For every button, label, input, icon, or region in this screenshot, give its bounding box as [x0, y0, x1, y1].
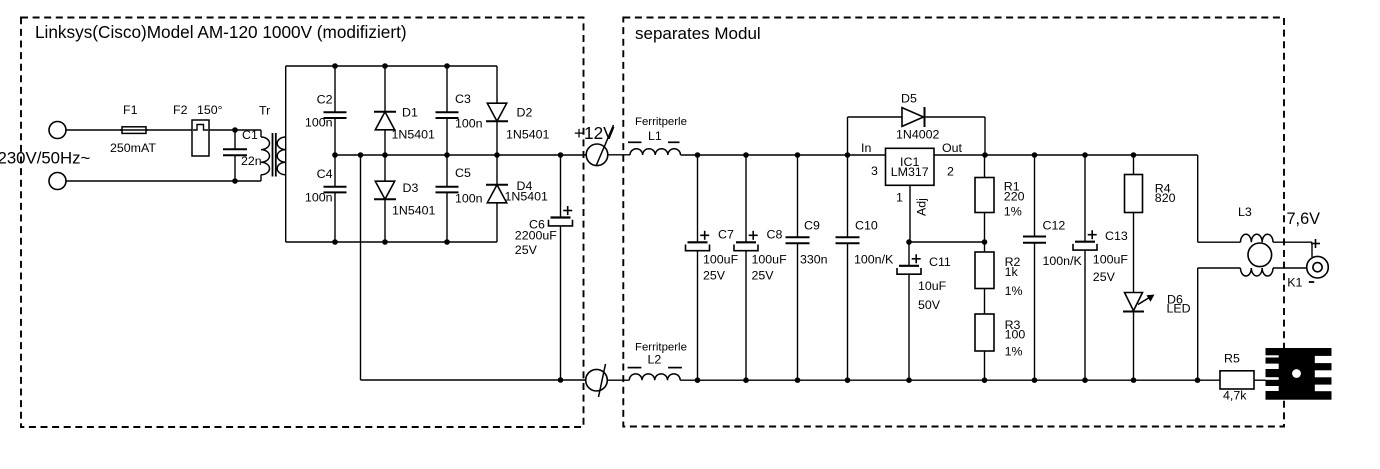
svg-text:1: 1	[896, 191, 903, 205]
svg-text:L1: L1	[648, 129, 662, 143]
svg-text:100: 100	[1005, 328, 1026, 342]
svg-text:C12: C12	[1043, 219, 1066, 233]
svg-text:1%: 1%	[1005, 345, 1023, 359]
svg-text:1N5401: 1N5401	[392, 128, 436, 142]
svg-text:330n: 330n	[800, 253, 828, 267]
svg-text:C5: C5	[455, 166, 471, 180]
svg-text:Linksys(Cisco)Model AM-120 100: Linksys(Cisco)Model AM-120 1000V (modifi…	[35, 22, 407, 42]
svg-text:100n: 100n	[305, 191, 333, 205]
svg-text:separates Modul: separates Modul	[635, 24, 761, 43]
svg-text:100uF: 100uF	[752, 253, 788, 267]
svg-text:Tr: Tr	[259, 104, 270, 118]
svg-text:4,7k: 4,7k	[1223, 389, 1247, 403]
svg-text:220: 220	[1004, 190, 1025, 204]
svg-text:10uF: 10uF	[918, 279, 947, 293]
svg-text:100n: 100n	[455, 117, 483, 131]
svg-text:7,6V: 7,6V	[1287, 210, 1321, 228]
svg-text:230V/50Hz~: 230V/50Hz~	[0, 149, 91, 168]
svg-text:250mAT: 250mAT	[110, 141, 156, 155]
svg-text:25V: 25V	[1093, 270, 1116, 284]
svg-text:1k: 1k	[1005, 265, 1019, 279]
svg-text:100uF: 100uF	[1093, 253, 1129, 267]
svg-text:C13: C13	[1105, 229, 1128, 243]
svg-text:Adj: Adj	[915, 198, 929, 216]
svg-text:820: 820	[1155, 191, 1176, 205]
svg-text:C10: C10	[855, 219, 878, 233]
svg-text:R5: R5	[1224, 352, 1240, 366]
svg-text:F1: F1	[123, 103, 138, 117]
svg-text:C11: C11	[929, 255, 951, 269]
svg-text:L2: L2	[648, 352, 662, 366]
svg-text:25V: 25V	[703, 269, 726, 283]
svg-text:100n: 100n	[305, 116, 333, 130]
svg-text:C9: C9	[804, 219, 820, 233]
svg-text:100n/K: 100n/K	[1043, 254, 1083, 268]
svg-text:Out: Out	[942, 141, 963, 155]
svg-text:Ferritperle: Ferritperle	[635, 116, 687, 128]
svg-text:LED: LED	[1167, 302, 1191, 316]
svg-text:C3: C3	[455, 92, 471, 106]
svg-text:1N5401: 1N5401	[506, 128, 550, 142]
svg-text:F2: F2	[173, 103, 188, 117]
svg-text:C8: C8	[767, 228, 783, 242]
svg-text:1%: 1%	[1004, 204, 1022, 218]
svg-text:LM317: LM317	[891, 165, 929, 179]
svg-text:1N5401: 1N5401	[505, 190, 549, 204]
svg-text:C2: C2	[317, 93, 333, 107]
svg-text:100n/K: 100n/K	[854, 253, 894, 267]
svg-text:C4: C4	[317, 167, 333, 181]
svg-text:2200uF: 2200uF	[515, 229, 557, 243]
svg-text:100uF: 100uF	[703, 253, 739, 267]
svg-text:100n: 100n	[455, 192, 483, 206]
svg-text:2: 2	[947, 165, 954, 179]
svg-text:1%: 1%	[1005, 284, 1023, 298]
svg-text:3: 3	[871, 164, 878, 178]
svg-text:In: In	[861, 141, 871, 155]
svg-text:150°: 150°	[197, 103, 223, 117]
svg-text:25V: 25V	[752, 269, 775, 283]
svg-text:1N5401: 1N5401	[392, 204, 436, 218]
svg-text:D1: D1	[402, 106, 418, 120]
svg-text:22n: 22n	[241, 154, 262, 168]
svg-text:D5: D5	[901, 92, 917, 106]
svg-text:C7: C7	[718, 228, 734, 242]
svg-text:K1: K1	[1287, 276, 1302, 290]
svg-text:1N4002: 1N4002	[896, 128, 940, 142]
svg-text:50V: 50V	[918, 298, 941, 312]
svg-text:+12V: +12V	[574, 123, 615, 143]
svg-text:D3: D3	[403, 181, 419, 195]
svg-text:25V: 25V	[515, 243, 538, 257]
svg-text:L3: L3	[1238, 205, 1252, 219]
svg-text:D2: D2	[517, 106, 533, 120]
